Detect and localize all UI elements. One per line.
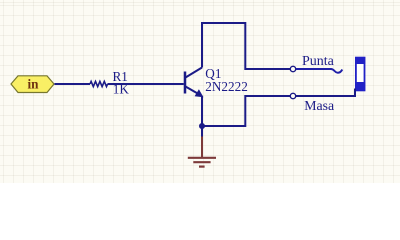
wire resistor to base of Q1 (108, 83, 184, 85)
connector J1 tip contact (296, 69, 343, 73)
connector J1 body (355, 57, 365, 91)
wire junction to Masa pin (202, 96, 290, 126)
svg-text:Punta: Punta (302, 54, 335, 69)
pin circle Punta (290, 66, 295, 71)
wire emitter to junction (201, 96, 203, 126)
pin circle Masa (290, 93, 295, 98)
transistor Q1 (185, 68, 204, 98)
wire collector to Punta pin (202, 23, 290, 69)
wire junction to ground (201, 126, 203, 137)
ground GND (188, 137, 216, 167)
resistor R1 (90, 81, 108, 86)
svg-text:Masa: Masa (304, 98, 334, 113)
junction dot (199, 123, 205, 129)
port IN (11, 76, 54, 93)
svg-text:in: in (28, 77, 40, 92)
wire port to resistor R1 (55, 83, 91, 85)
wire Masa pin to connector (296, 89, 355, 97)
svg-text:2N2222: 2N2222 (205, 79, 248, 94)
